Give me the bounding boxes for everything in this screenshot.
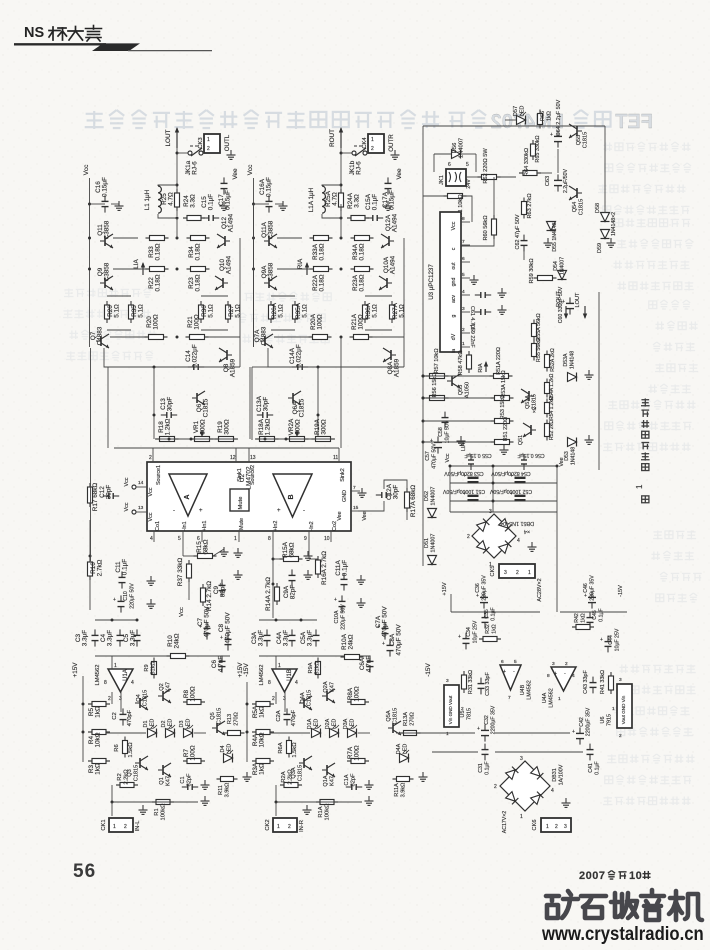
capacitor C15A xyxy=(365,193,383,221)
transistor Q6 xyxy=(192,391,210,417)
pin 5 -In1 xyxy=(178,521,188,542)
resistor R1A xyxy=(316,800,338,821)
ground for D53 xyxy=(585,435,594,444)
watermark url xyxy=(542,923,704,946)
wire lower bus A xyxy=(268,348,404,369)
resistor R55 xyxy=(532,338,543,362)
resistor R5 xyxy=(88,702,110,718)
pin 8 +In2 xyxy=(268,521,279,542)
pin 6 out of U3 xyxy=(451,256,470,270)
capacitor C9A xyxy=(283,569,297,599)
bleed-through title xyxy=(85,110,653,133)
transistor Q1 xyxy=(158,763,172,786)
ground near C16 xyxy=(111,201,124,210)
capacitor C53 8200uF xyxy=(444,470,484,482)
resistor R18A xyxy=(256,418,279,441)
wire cap bank rails xyxy=(449,465,559,513)
relay contact JK1bA xyxy=(341,146,367,175)
ground LIA xyxy=(457,436,468,451)
capacitor C13 xyxy=(160,397,177,418)
node AC17V xyxy=(502,811,508,833)
wire lower bus xyxy=(104,348,240,369)
node -15V psu xyxy=(618,585,624,597)
resistor R11 xyxy=(217,777,238,798)
connector CK3 xyxy=(198,134,220,153)
bleed-through body text xyxy=(63,142,702,806)
resistor R36A xyxy=(363,301,379,323)
connector CK2 xyxy=(265,818,297,832)
transistor Q10A xyxy=(379,255,397,290)
capacitor C52 10000uF xyxy=(489,488,532,500)
inductor L1 xyxy=(144,185,177,218)
resistor R51A xyxy=(490,347,513,378)
resistor R7A xyxy=(347,745,369,763)
header glyph bei xyxy=(49,27,67,40)
wire drop A xyxy=(317,367,320,439)
resistor R4A xyxy=(252,730,274,748)
node -15V L xyxy=(243,663,250,677)
resistor R15A xyxy=(273,541,303,561)
wire IC top feed xyxy=(114,447,339,449)
resistor R33A xyxy=(310,236,343,261)
resistor R15 xyxy=(183,539,217,558)
wire prot row2 xyxy=(422,397,495,400)
wire drop2 xyxy=(107,367,109,448)
wire LED row A xyxy=(270,732,370,734)
resistor R9A xyxy=(308,658,321,679)
capacitor C55 xyxy=(464,452,491,470)
diode D3 xyxy=(179,719,193,738)
wire coupling bus L xyxy=(95,619,230,657)
transistor Q1A xyxy=(322,763,336,787)
wire Q55-Q54 cross xyxy=(557,149,559,173)
resistor R18 xyxy=(156,418,179,441)
resistor R42 xyxy=(572,613,594,629)
node OUTR xyxy=(388,134,395,152)
ground at connector A xyxy=(391,150,400,159)
resistor R20 xyxy=(110,314,168,339)
wire net g xyxy=(0,0,1,1)
node Vcc railA xyxy=(247,165,254,204)
transistor Q4 xyxy=(135,690,149,710)
capacitor C54 8200uF xyxy=(491,470,531,482)
header swoosh xyxy=(92,43,140,51)
transistor Q54 xyxy=(569,186,585,215)
resistor R17 xyxy=(88,483,100,512)
capacitor C1A xyxy=(344,773,362,790)
transistor Q51 xyxy=(518,423,536,445)
header rule xyxy=(14,43,106,45)
node +15V psu xyxy=(442,582,451,612)
ground for R1A xyxy=(365,796,374,805)
node Vcc PSU xyxy=(445,453,451,462)
wire +15V rail A xyxy=(246,682,249,762)
wire mid rows A xyxy=(271,296,392,330)
op-amp U4B xyxy=(500,659,533,701)
transistor Q51A xyxy=(521,389,538,413)
IC U2 label xyxy=(239,466,253,490)
capacitor C12A xyxy=(376,483,400,500)
node Vcc rail xyxy=(83,165,90,204)
resistor R34A xyxy=(351,236,374,261)
resistor R52A xyxy=(545,348,557,372)
transistor Q53 xyxy=(447,374,471,398)
pin 7 c of U3 xyxy=(451,239,470,250)
capacitor C3 xyxy=(75,629,99,646)
resistor R66 xyxy=(538,110,553,129)
pin 4 Co1 xyxy=(150,521,161,542)
node LOUT output xyxy=(165,127,179,148)
ground near CK2 xyxy=(303,805,312,814)
wire cap bank right drop xyxy=(556,512,558,612)
diode D53A xyxy=(563,351,577,382)
resistor R5A xyxy=(252,702,274,719)
ground after R15 xyxy=(213,547,229,556)
pin 7 GND xyxy=(342,485,367,502)
diode D4 xyxy=(220,744,233,763)
capacitor C13A xyxy=(256,395,273,418)
figure caption (rotated) xyxy=(635,398,650,502)
resistor R27 xyxy=(226,301,242,323)
transistor Q5 xyxy=(210,708,225,735)
resistor R54A xyxy=(545,373,556,400)
inductor L1A xyxy=(308,185,341,218)
wire right vertical bus xyxy=(598,292,600,470)
resistor R58 xyxy=(458,350,472,375)
capacitor C36 xyxy=(475,575,488,609)
resistor R24 xyxy=(176,194,206,221)
node AC28V xyxy=(537,578,543,601)
resistor R59 xyxy=(529,258,557,283)
wire net h xyxy=(249,367,251,439)
capacitor C4 xyxy=(100,629,124,646)
wire net d xyxy=(340,204,342,218)
wire mid rows xyxy=(107,296,228,330)
transistor Q9 xyxy=(97,262,113,290)
IC U5 7815 xyxy=(444,678,473,737)
capacitor C43 xyxy=(583,669,597,693)
capacitor C58 xyxy=(438,412,451,444)
pin 2 Source1 xyxy=(149,448,162,485)
resistor R13A xyxy=(400,712,421,736)
diode D57 LED xyxy=(505,106,526,125)
resistor R19 xyxy=(215,419,238,441)
capacitor C5A xyxy=(300,629,320,646)
IC U6 7915 xyxy=(600,677,632,739)
pin 13 Source2 xyxy=(249,448,256,485)
bridge DB31 xyxy=(494,756,554,820)
ground for C1 xyxy=(201,780,210,789)
pin 9 -In2 xyxy=(304,521,315,542)
capacitor C15 xyxy=(201,194,219,221)
pin 2 dV of U3 xyxy=(451,327,470,340)
diode D53 xyxy=(564,438,577,466)
wire emitter row1 A xyxy=(277,237,302,239)
capacitor C62 xyxy=(515,214,528,260)
op-amp U2A xyxy=(169,474,207,516)
ground for R11 xyxy=(243,772,252,781)
header thin rule xyxy=(128,50,212,52)
op-amp U2B xyxy=(273,474,312,517)
ground for R11A xyxy=(419,772,428,781)
capacitor C16A xyxy=(254,177,273,213)
wire opamp feeds xyxy=(112,656,276,669)
resistor R41 xyxy=(600,670,614,694)
node -15V A xyxy=(425,663,432,677)
transistor Q8 xyxy=(219,348,237,377)
resistor R6A xyxy=(278,737,298,758)
capacitor C44 xyxy=(600,628,621,652)
potentiometer VR2A xyxy=(286,418,309,442)
transistor Q55 xyxy=(569,124,589,148)
wire U2 right leads xyxy=(358,480,407,520)
wire left rail mid xyxy=(90,348,92,561)
ground for C1A xyxy=(365,780,374,789)
node +15V L xyxy=(72,662,83,682)
relay contact JK1a xyxy=(177,146,203,175)
resistor R23A xyxy=(340,267,374,292)
wire net e xyxy=(176,218,178,238)
wire pre-IC A xyxy=(255,438,335,441)
potentiometer VR1 xyxy=(191,419,214,441)
capacitor C41 xyxy=(587,744,601,775)
resistor R7 xyxy=(183,745,205,763)
ground for C61 xyxy=(498,288,507,297)
capacitor C9 xyxy=(213,579,227,597)
header title NS cup contest xyxy=(24,25,44,41)
ground for DB51 xyxy=(528,542,537,551)
resistor R35 xyxy=(129,301,145,323)
resistor R13 xyxy=(224,712,245,735)
transistor Q7A xyxy=(254,326,273,348)
capacitor C6 xyxy=(211,655,226,672)
capacitor C63 xyxy=(545,168,569,193)
wire emitter row1 xyxy=(113,237,138,239)
ground under C17 xyxy=(220,201,229,210)
wire output rail xyxy=(176,148,179,216)
capacitor C6A xyxy=(359,655,374,672)
IC U3 uPC1237 xyxy=(428,212,461,352)
resistor R62 xyxy=(466,148,516,184)
transistor Q11A xyxy=(261,220,277,248)
op-amp U1B xyxy=(259,663,298,712)
node RIA xyxy=(297,258,309,275)
resistor R26A xyxy=(269,301,285,323)
diode D55 xyxy=(547,222,559,252)
pin 5 gnd of U3 xyxy=(451,272,470,286)
resistor R10A xyxy=(341,633,364,659)
connector CK4A xyxy=(362,134,384,153)
wire output rail A xyxy=(340,148,343,216)
wire net f xyxy=(340,218,342,238)
capacitor C4A xyxy=(276,629,296,646)
resistor R16 xyxy=(88,520,104,580)
node IN-R xyxy=(299,820,305,832)
resistor R63 xyxy=(522,193,534,218)
pin 1 Mute xyxy=(234,518,245,542)
wire net c xyxy=(253,204,255,347)
capacitor C57 xyxy=(425,436,442,468)
diode D58 xyxy=(595,203,610,221)
wire Vcc rail A xyxy=(252,203,255,348)
capacitor C7A xyxy=(375,606,389,640)
capacitor C33 xyxy=(478,671,492,695)
ground DB31 xyxy=(562,798,571,807)
resistor R64 xyxy=(519,148,552,176)
resistor R21A xyxy=(340,313,405,339)
transistor Q4A xyxy=(299,690,313,710)
diode D51 xyxy=(424,534,437,565)
ground between C55 C56 xyxy=(500,445,509,454)
capacitor C60 xyxy=(558,286,574,323)
capacitor C45 xyxy=(587,608,605,628)
capacitor C16 xyxy=(90,177,109,213)
transistor Q12A xyxy=(381,213,399,248)
header glyph sai xyxy=(86,26,102,42)
ground for C10 xyxy=(147,599,156,608)
resistor R23 xyxy=(176,267,210,292)
diode D2A xyxy=(325,718,339,737)
transistor Q7 xyxy=(90,326,109,348)
transistor Q2 xyxy=(158,682,172,703)
pin 3 g of U3 xyxy=(451,306,470,317)
transistor Q6A xyxy=(288,391,306,417)
capacitor C32 xyxy=(477,705,497,741)
resistor R60 xyxy=(461,177,497,246)
resistor R1 xyxy=(152,800,174,821)
capacitor C8 xyxy=(218,612,232,651)
transistor Q8A xyxy=(383,348,401,377)
resistor R22A xyxy=(277,267,333,292)
node IN-L xyxy=(135,820,141,832)
resistor R19A xyxy=(312,418,335,441)
resistor R16A xyxy=(309,542,328,585)
diode D2 xyxy=(161,719,175,738)
capacitor C42 xyxy=(572,707,592,744)
resistor R34 xyxy=(187,236,210,261)
resistor R55A xyxy=(532,313,543,340)
capacitor C10 xyxy=(90,577,136,613)
op-amp IC U2 LM4702 box xyxy=(147,462,351,531)
ground for C9A xyxy=(304,570,313,579)
wire net i xyxy=(0,0,1,1)
wire DB31 leads xyxy=(0,0,1,1)
header glyph da xyxy=(68,27,83,41)
pin 4 acv of U3 xyxy=(451,289,470,303)
diode D56 xyxy=(434,138,476,172)
resistor R25 xyxy=(161,189,180,211)
ground for C11 xyxy=(147,576,156,585)
capacitor C17A xyxy=(382,168,403,210)
capacitor C7 xyxy=(197,606,211,640)
pin 1 ia of U3 xyxy=(451,341,470,353)
resistor R25A xyxy=(325,189,344,211)
capacitor C31 xyxy=(478,744,491,775)
resistor R37 xyxy=(177,558,192,587)
wire prot row1 xyxy=(422,375,495,378)
resistor R6 xyxy=(114,737,134,758)
resistor R14 xyxy=(201,581,214,611)
diode D3A xyxy=(343,718,357,737)
resistor R35A xyxy=(293,301,309,323)
label DB31 xyxy=(552,764,565,785)
transistor Q10 xyxy=(215,255,233,290)
resistor R2 xyxy=(116,769,138,788)
capacitor C10A xyxy=(334,595,347,629)
capacitor C5 xyxy=(123,629,141,646)
resistor R14A xyxy=(265,577,280,611)
wire reg rail2 xyxy=(432,751,583,753)
op-amp U4A xyxy=(542,661,576,708)
resistor R27A xyxy=(390,301,406,323)
wire drop xyxy=(153,367,156,439)
wire A rail mid xyxy=(0,0,1,1)
ground near C16A xyxy=(275,201,288,210)
transistor Q11 xyxy=(97,220,113,248)
pin 6 +In1 xyxy=(197,521,208,542)
resistor R26 xyxy=(105,301,121,323)
node Vcc mid xyxy=(179,580,189,617)
resistor R33 xyxy=(146,236,179,261)
wire net b xyxy=(403,238,405,367)
capacitor C61 xyxy=(469,292,491,332)
resistor R10 xyxy=(167,633,190,658)
resistor R3A xyxy=(252,759,274,776)
relay JK1 xyxy=(439,162,472,189)
resistor R9 xyxy=(144,658,157,679)
capacitor C11A xyxy=(335,560,349,591)
wire pre-IC xyxy=(155,438,238,441)
ground under C17A xyxy=(384,201,393,210)
wire protection rails xyxy=(422,197,495,446)
ground near CK1 xyxy=(139,805,148,814)
op-amp U1A xyxy=(95,663,134,712)
resistor R21 xyxy=(176,314,241,339)
ground for C9 xyxy=(234,548,243,579)
wire top loop xyxy=(423,126,605,213)
resistor R56 xyxy=(423,372,449,400)
resistor R24A xyxy=(340,192,370,220)
wire input net xyxy=(111,785,199,816)
ground for D55 xyxy=(544,238,553,247)
wire net j xyxy=(0,0,1,1)
wire psu top entry xyxy=(0,0,1,1)
connector CK6 xyxy=(532,818,571,832)
wire drop2 A xyxy=(252,337,341,448)
ground for C59 xyxy=(498,305,507,314)
diode D1A xyxy=(307,718,321,737)
capacitor C12 xyxy=(99,485,119,500)
pin 14 Vcc xyxy=(124,477,154,496)
pin 13b Vcc xyxy=(124,502,154,521)
resistor R2A xyxy=(280,769,302,788)
pin 11 Sink2 xyxy=(333,448,346,482)
transistor Q5A xyxy=(386,708,401,735)
capacitor C35 xyxy=(482,607,497,628)
capacitor C2 xyxy=(112,708,133,726)
capacitor C46 xyxy=(583,575,596,609)
wire reg long xyxy=(396,732,432,734)
capacitor C14A xyxy=(289,344,308,370)
ground for U3 gnd pin xyxy=(470,275,479,284)
pin 15 Vee xyxy=(337,505,368,521)
wire psu mid rails xyxy=(451,611,540,613)
node OUTL xyxy=(224,134,231,151)
resistor R8A xyxy=(347,686,369,704)
node LI xyxy=(133,258,145,275)
capacitor C59 xyxy=(469,309,491,348)
resistor R52 xyxy=(545,420,556,441)
